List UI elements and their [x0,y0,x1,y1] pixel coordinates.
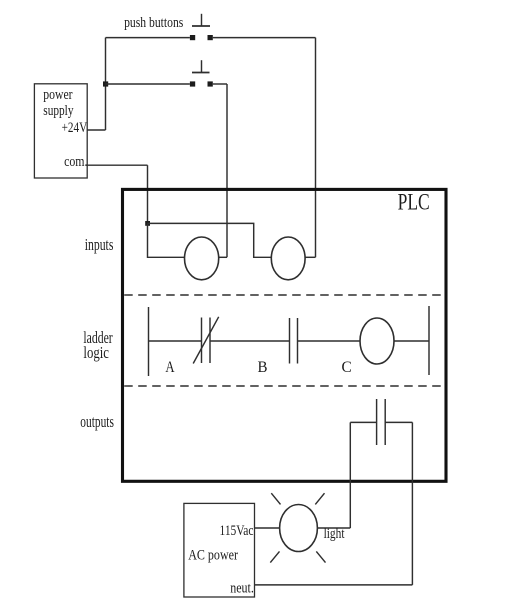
wire junction to PB2 left [106,83,190,85]
ladder left rail [148,307,150,376]
power supply box [34,84,87,178]
wire com horizontal [87,164,147,166]
dashed separator inputs/ladder [124,294,443,296]
lamp ray bottom-left [270,551,279,562]
ladder rung segment 3 [298,340,361,342]
svg-text:light: light [324,526,345,542]
svg-text:inputs: inputs [85,235,114,254]
ladder rung segment 2 [210,340,290,342]
contact B (normally open) [290,318,298,364]
svg-text:neut.: neut. [230,581,254,597]
contact A (normally closed) [193,317,219,364]
input terminal 2 [271,237,305,280]
wire PB1 left to +24V bus [106,37,190,39]
wire neutral horizontal [255,584,413,586]
AC power box [184,503,255,597]
wire common across to input 2 left [148,223,272,257]
coil C [360,318,394,364]
svg-text:B: B [258,359,268,376]
wire common down to input 1 left [148,223,185,257]
push button PB2 contacts [190,81,213,86]
svg-text:outputs: outputs [80,412,114,431]
wire output right vertical to neutral [411,422,413,585]
wire lamp right horizontal [317,527,350,529]
svg-text:power: power [43,87,72,103]
svg-text:PLC: PLC [398,190,430,215]
svg-text:AC power: AC power [188,548,238,564]
PLC enclosure [123,189,447,481]
wire PB2 right horizontal [213,83,227,85]
svg-text:115Vac: 115Vac [220,523,254,539]
svg-text:supply: supply [43,103,74,119]
ladder rung segment 4 [394,340,429,342]
svg-text:logic: logic [83,343,109,362]
ladder right rail [428,306,430,375]
wire output contact right [385,421,412,423]
wire PB2 right vertical to input 1 [226,84,228,257]
lamp ray top-left [271,493,280,504]
lamp bulb [280,505,318,552]
svg-text:com.: com. [64,154,87,170]
lamp ray top-right [315,493,324,504]
input terminal 1 [185,237,219,280]
wire PB1 right vertical to input 2 [315,38,317,258]
junction dot +24V bus [103,81,108,86]
junction dot inputs common [145,221,150,226]
ladder rung segment 1 [149,340,202,342]
svg-text:C: C [342,359,352,376]
output contact [377,399,386,445]
svg-text:A: A [165,359,175,376]
wire output contact left [350,421,376,423]
wire +24V bus vertical [105,38,107,130]
svg-text:+24V: +24V [62,120,88,136]
svg-text:push buttons: push buttons [124,14,183,31]
wire 115Vac to lamp [255,527,280,529]
wire into input terminal 1 right [219,256,227,258]
push button PB2 plunger [192,60,210,72]
wire +24V horizontal from supply [87,129,105,131]
push button PB1 plunger [192,14,210,26]
push button PB1 contacts [190,35,213,40]
wire output left vertical to lamp [349,422,351,528]
wire PB1 right horizontal [213,37,316,39]
wire into input terminal 2 right [305,256,315,258]
dashed separator ladder/outputs [124,385,443,387]
lamp ray bottom-right [316,551,325,562]
wire com vertical into PLC [147,165,149,223]
